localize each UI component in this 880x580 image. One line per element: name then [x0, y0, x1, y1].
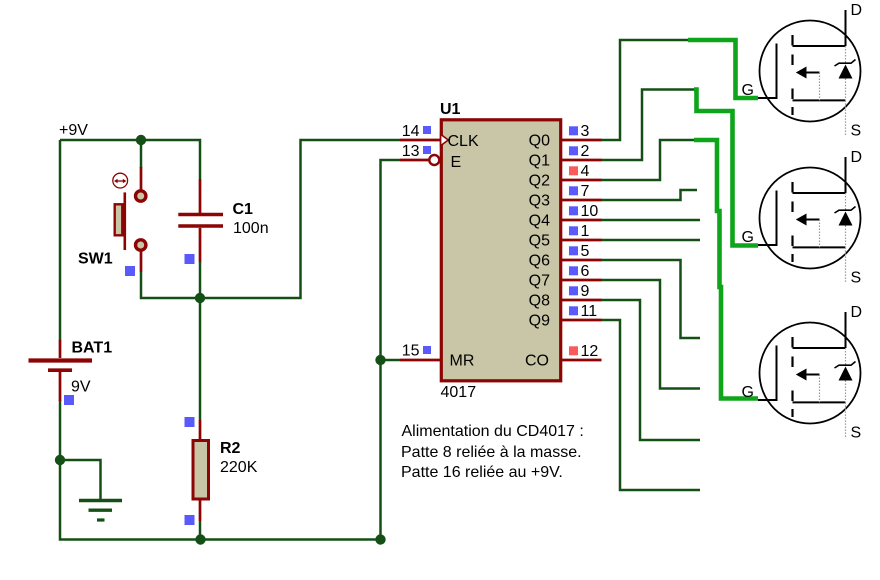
svg-text:Alimentation du CD4017 :: Alimentation du CD4017 : [402, 423, 584, 440]
op-amp U1 body (CD4017 counter) [441, 120, 560, 381]
svg-text:4: 4 [581, 163, 590, 180]
svg-text:3: 3 [581, 123, 590, 140]
svg-text:BAT1: BAT1 [72, 340, 113, 357]
svg-text:11: 11 [581, 303, 598, 320]
transistor M2 (N-MOSFET) [758, 157, 861, 283]
pin 14 CLK stub [400, 139, 440, 142]
wire Q6 output stub [601, 260, 700, 338]
switch SW1 [113, 167, 146, 272]
svg-text:MR: MR [450, 353, 475, 370]
wire battery bottom to bottom rail [60, 400, 381, 540]
svg-text:5: 5 [581, 243, 590, 260]
svg-text:9V: 9V [71, 379, 91, 396]
svg-text:7: 7 [581, 183, 590, 200]
wire Q3 output stub [601, 190, 697, 200]
ground symbol [79, 501, 122, 521]
wire Q7 output stub [601, 280, 700, 389]
wire R2 top feed [199, 298, 202, 420]
junction node D [55, 455, 65, 465]
svg-text:U1: U1 [440, 101, 461, 118]
junction node A [136, 135, 146, 145]
wire Q8 output stub [601, 300, 700, 440]
clock input triangle [441, 134, 449, 146]
svg-text:S: S [851, 270, 862, 287]
svg-text:CLK: CLK [448, 133, 479, 150]
svg-text:Q3: Q3 [529, 193, 550, 210]
junction node C [375, 355, 385, 365]
svg-text:2: 2 [581, 143, 590, 160]
wire C1 bottom drop [199, 262, 202, 298]
svg-text:Q9: Q9 [529, 313, 550, 330]
wire MR branch [381, 359, 401, 362]
svg-text:G: G [742, 384, 754, 401]
svg-text:D: D [851, 149, 863, 166]
pin 3 Q0 stub [561, 139, 602, 142]
svg-text:Q2: Q2 [529, 173, 550, 190]
transistor M1 (N-MOSFET) [758, 10, 861, 136]
svg-text:10: 10 [581, 203, 599, 220]
svg-text:S: S [851, 425, 862, 442]
svg-text:C1: C1 [233, 201, 254, 218]
resistor R2 [193, 420, 209, 521]
wire highlighted net to M1 gate [688, 40, 758, 98]
svg-text:14: 14 [402, 123, 420, 140]
wire highlighted net to M2 gate [694, 90, 758, 246]
wire highlighted net to M3 gate [694, 140, 758, 399]
wire SW1 top drop [140, 140, 143, 168]
wire Q4 output stub [601, 219, 700, 222]
svg-text:12: 12 [581, 343, 599, 360]
svg-text:R2: R2 [220, 440, 241, 457]
svg-text:G: G [742, 229, 754, 246]
svg-text:Q0: Q0 [529, 133, 550, 150]
junction node B [195, 293, 205, 303]
pin 7 Q3 stub [561, 199, 602, 202]
svg-text:Patte 8 reliée à la masse.: Patte 8 reliée à la masse. [401, 444, 582, 461]
pin 13 E stub [400, 159, 429, 162]
transistor M3 (N-MOSFET) [758, 312, 861, 438]
pin 11 Q9 stub [561, 319, 602, 322]
svg-text:13: 13 [402, 143, 420, 160]
pin 4 Q2 stub [561, 179, 602, 182]
junction node F [375, 534, 385, 544]
svg-text:Q8: Q8 [529, 293, 550, 310]
svg-text:G: G [742, 82, 754, 99]
pin 12 CO stub [561, 359, 602, 362]
wire Q2 output run [601, 140, 695, 180]
svg-text:9: 9 [581, 283, 590, 300]
svg-text:CO: CO [525, 353, 549, 370]
svg-text:SW1: SW1 [78, 251, 113, 268]
wire Q0 output to top run [601, 40, 689, 140]
junction node E [195, 534, 205, 544]
svg-text:Q5: Q5 [529, 233, 550, 250]
svg-text:D: D [851, 2, 863, 19]
svg-text:D: D [851, 304, 863, 321]
pin 10 Q4 stub [561, 219, 602, 222]
wire E riser x380 [381, 160, 401, 540]
note text block [401, 423, 584, 481]
wire left rail down to battery [59, 140, 62, 341]
wire Q5 output stub [601, 239, 700, 242]
pin 2 Q1 stub [561, 159, 602, 162]
svg-text:100n: 100n [233, 220, 269, 237]
wire R2 bottom to bottom rail [199, 521, 202, 540]
pin 1 Q5 stub [561, 239, 602, 242]
svg-text:S: S [851, 123, 862, 140]
svg-text:E: E [451, 154, 462, 171]
capacitor C1 [178, 179, 223, 262]
svg-text:Q4: Q4 [529, 213, 550, 230]
svg-text:Patte 16 reliée au +9V.: Patte 16 reliée au +9V. [401, 464, 563, 481]
svg-text:Q1: Q1 [529, 153, 550, 170]
wire Q9 output stub [601, 320, 700, 490]
wire +9V rail top horizontal and C1 drop [60, 140, 200, 179]
battery BAT1 [29, 340, 93, 401]
pin 15 MR stub [400, 359, 440, 362]
svg-text:+9V: +9V [59, 122, 88, 139]
svg-text:220K: 220K [220, 459, 258, 476]
pin 9 Q8 stub [561, 299, 602, 302]
svg-text:Q6: Q6 [529, 253, 550, 270]
wire SW1 bottom to CLK riser [141, 140, 400, 298]
svg-text:Q7: Q7 [529, 273, 550, 290]
svg-text:6: 6 [581, 263, 590, 280]
svg-text:1: 1 [581, 223, 590, 240]
pin 5 Q6 stub [561, 259, 602, 262]
svg-text:4017: 4017 [441, 384, 477, 401]
E inverting bubble [429, 155, 439, 165]
wire ground branch [60, 460, 101, 500]
pin 6 Q7 stub [561, 279, 602, 282]
svg-text:15: 15 [402, 343, 420, 360]
wire Q1 output run [601, 90, 695, 161]
